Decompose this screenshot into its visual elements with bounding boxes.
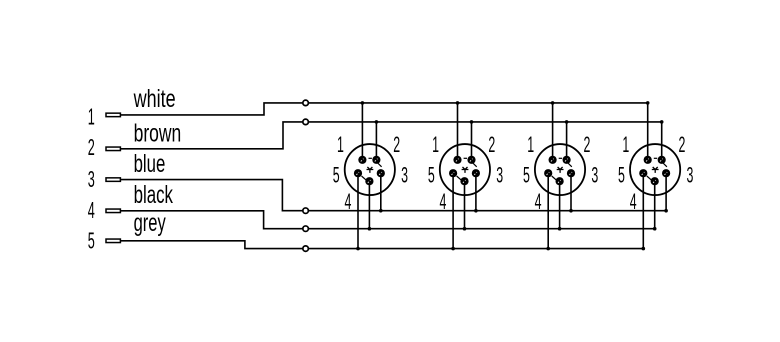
svg-text:1: 1 bbox=[622, 132, 629, 157]
svg-text:3: 3 bbox=[88, 166, 95, 192]
svg-text:3: 3 bbox=[401, 163, 408, 188]
svg-text:4: 4 bbox=[440, 189, 447, 214]
svg-text:1: 1 bbox=[432, 132, 439, 157]
svg-text:2: 2 bbox=[679, 132, 686, 157]
svg-text:3: 3 bbox=[686, 163, 693, 188]
svg-text:white: white bbox=[133, 84, 176, 113]
svg-text:5: 5 bbox=[333, 163, 340, 188]
svg-text:brown: brown bbox=[134, 118, 182, 147]
svg-text:4: 4 bbox=[344, 189, 351, 214]
svg-text:1: 1 bbox=[337, 132, 344, 157]
svg-text:3: 3 bbox=[496, 163, 503, 188]
svg-text:2: 2 bbox=[583, 132, 590, 157]
svg-text:3: 3 bbox=[591, 163, 598, 188]
svg-text:black: black bbox=[134, 181, 174, 209]
svg-text:4: 4 bbox=[88, 197, 95, 223]
svg-text:5: 5 bbox=[618, 163, 625, 188]
svg-text:2: 2 bbox=[488, 132, 495, 157]
svg-text:1: 1 bbox=[527, 132, 534, 157]
svg-text:5: 5 bbox=[523, 163, 530, 188]
svg-text:blue: blue bbox=[134, 150, 166, 178]
svg-text:2: 2 bbox=[393, 132, 400, 157]
svg-text:5: 5 bbox=[428, 163, 435, 188]
svg-text:grey: grey bbox=[134, 210, 166, 237]
svg-text:2: 2 bbox=[88, 134, 95, 160]
svg-text:4: 4 bbox=[535, 189, 542, 214]
svg-text:4: 4 bbox=[630, 189, 637, 214]
svg-text:5: 5 bbox=[88, 227, 95, 253]
svg-text:1: 1 bbox=[88, 103, 95, 129]
